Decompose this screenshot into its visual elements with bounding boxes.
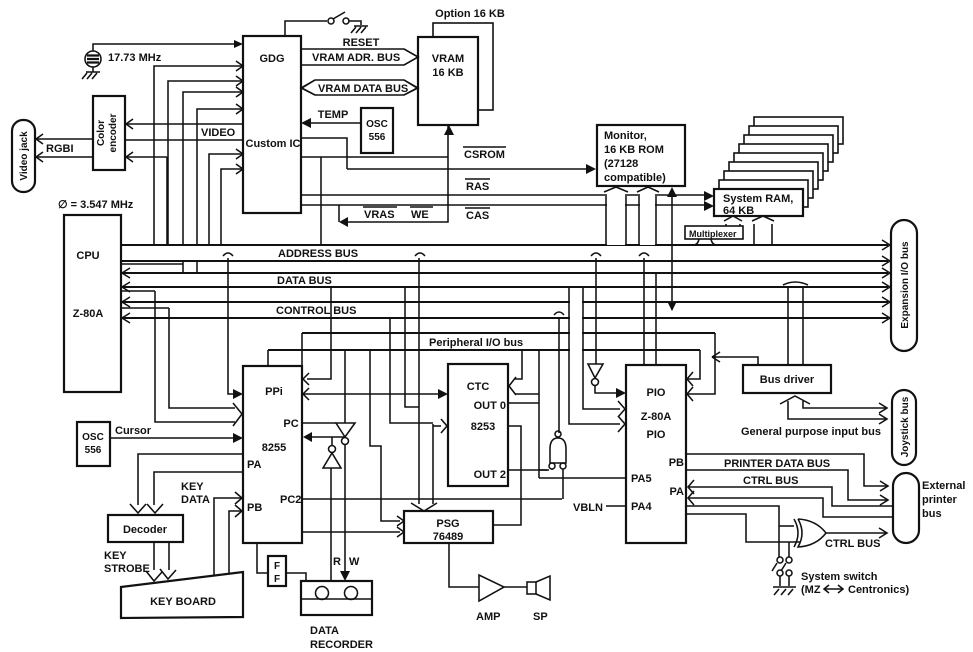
svg-text:OUT 0: OUT 0 [474,400,506,412]
svg-text:Video jack: Video jack [19,131,30,181]
svg-text:KEY BOARD: KEY BOARD [150,596,216,608]
svg-text:W: W [349,556,360,568]
svg-text:TEMP: TEMP [318,109,349,121]
svg-text:VRAM DATA BUS: VRAM DATA BUS [318,83,408,95]
svg-text:PA: PA [670,486,685,498]
svg-text:Centronics): Centronics) [848,584,909,596]
svg-text:556: 556 [369,132,386,143]
svg-text:Cursor: Cursor [115,425,152,437]
svg-text:AMP: AMP [476,611,500,623]
svg-text:SP: SP [533,611,548,623]
svg-text:DATA: DATA [181,494,210,506]
svg-text:Z-80A: Z-80A [641,411,672,423]
svg-text:PIO: PIO [647,387,666,399]
svg-text:DATA: DATA [310,625,339,637]
svg-text:Decoder: Decoder [123,524,168,536]
svg-text:PB: PB [247,502,262,514]
svg-text:8253: 8253 [471,421,495,433]
svg-text:CTC: CTC [467,381,490,393]
svg-text:OSC: OSC [366,119,388,130]
svg-text:ADDRESS BUS: ADDRESS BUS [278,248,358,260]
svg-text:RAS: RAS [466,181,489,193]
svg-text:Z-80A: Z-80A [73,308,104,320]
svg-text:PPi: PPi [265,386,283,398]
svg-text:F: F [274,574,280,585]
svg-text:17.73 MHz: 17.73 MHz [108,52,162,64]
svg-text:PA5: PA5 [631,473,652,485]
svg-text:76489: 76489 [433,531,464,543]
svg-text:RGBI: RGBI [46,143,74,155]
svg-text:VIDEO: VIDEO [201,127,236,139]
svg-text:PA4: PA4 [631,501,652,513]
svg-text:556: 556 [85,445,102,456]
svg-text:16 KB ROM: 16 KB ROM [604,144,664,156]
svg-text:WE: WE [411,209,429,221]
svg-text:bus: bus [922,508,942,520]
svg-text:CPU: CPU [76,250,99,262]
svg-text:System switch: System switch [801,571,878,583]
svg-text:Custom IC: Custom IC [246,138,301,150]
svg-text:VRAS: VRAS [364,209,395,221]
svg-text:Expansion I/O bus: Expansion I/O bus [900,241,911,329]
svg-text:64 KB: 64 KB [723,205,754,217]
svg-text:PIO: PIO [647,429,666,441]
svg-text:OUT 2: OUT 2 [474,469,506,481]
svg-text:RECORDER: RECORDER [310,639,373,651]
svg-text:PA: PA [247,459,262,471]
svg-text:CTRL BUS: CTRL BUS [825,538,880,550]
svg-text:System RAM,: System RAM, [723,193,793,205]
svg-text:(27128: (27128 [604,158,638,170]
svg-text:PC: PC [283,418,298,430]
svg-text:Bus driver: Bus driver [760,374,815,386]
svg-text:PC2: PC2 [280,494,301,506]
svg-text:DATA BUS: DATA BUS [277,275,332,287]
svg-text:compatible): compatible) [604,172,666,184]
svg-text:PRINTER DATA BUS: PRINTER DATA BUS [724,458,830,470]
svg-text:printer: printer [922,494,958,506]
svg-text:STROBE: STROBE [104,563,150,575]
svg-text:8255: 8255 [262,442,286,454]
svg-text:General purpose input bus: General purpose input bus [741,426,881,438]
svg-text:Peripheral I/O bus: Peripheral I/O bus [429,337,523,349]
svg-text:CONTROL BUS: CONTROL BUS [276,305,356,317]
svg-text:encoder: encoder [108,113,119,152]
svg-text:16 KB: 16 KB [432,67,463,79]
svg-text:RESET: RESET [343,37,380,49]
svg-text:KEY: KEY [181,481,204,493]
svg-text:Multiplexer: Multiplexer [689,229,737,239]
svg-text:Option 16 KB: Option 16 KB [435,8,505,20]
svg-text:Color: Color [96,120,107,146]
svg-text:GDG: GDG [259,53,284,65]
svg-text:CAS: CAS [466,210,489,222]
svg-text:Joystick bus: Joystick bus [900,396,911,457]
svg-text:CTRL BUS: CTRL BUS [743,475,798,487]
svg-text:(MZ: (MZ [801,584,821,596]
svg-text:KEY: KEY [104,550,127,562]
svg-text:Monitor,: Monitor, [604,130,647,142]
svg-text:PSG: PSG [436,518,459,530]
svg-text:VRAM: VRAM [432,53,464,65]
svg-text:VBLN: VBLN [573,502,603,514]
svg-text:OSC: OSC [82,432,104,443]
svg-text:F: F [274,561,280,572]
svg-text:∅ = 3.547 MHz: ∅ = 3.547 MHz [58,199,134,211]
svg-text:VRAM ADR. BUS: VRAM ADR. BUS [312,52,400,64]
svg-text:External: External [922,480,965,492]
svg-text:PB: PB [669,457,684,469]
svg-text:R: R [333,556,341,568]
svg-text:CSROM: CSROM [464,149,505,161]
